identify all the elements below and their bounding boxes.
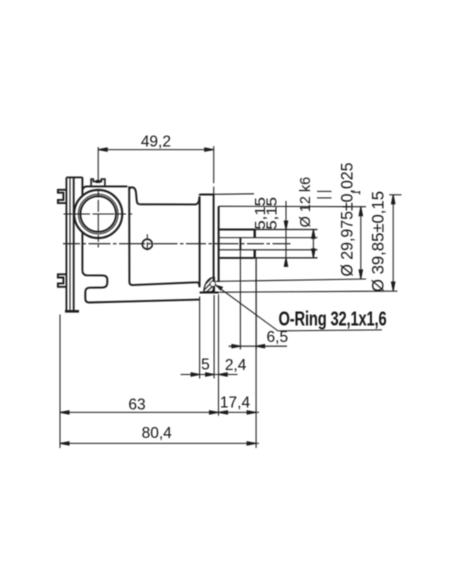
left mounting plate (outer): [65, 177, 82, 311]
hole vertical centerline: [146, 234, 148, 254]
port bore ring circle: [78, 194, 118, 234]
svg-text:17,4: 17,4: [220, 395, 251, 412]
o-ring pocket hatch: [190, 272, 225, 301]
svg-text:2,4: 2,4: [225, 357, 247, 374]
svg-text:80,4: 80,4: [142, 425, 173, 442]
hub top extension line: [219, 205, 366, 207]
svg-text:49,2: 49,2: [141, 133, 171, 150]
groove left wall: [239, 238, 241, 250]
dimension 5 and 2.4: [181, 295, 238, 416]
shaft surfaces and seal groove: [219, 230, 255, 258]
rear flange: [200, 195, 219, 293]
dimension 49.2: [96, 146, 214, 194]
groove root top line: [220, 237, 318, 239]
dimension 80.4: [60, 442, 259, 445]
svg-text:6,5: 6,5: [267, 329, 289, 346]
top tab on body: [91, 179, 105, 186]
port bore inner circle: [80, 196, 116, 232]
svg-text:Ø 29,975±0,025: Ø 29,975±0,025: [339, 163, 357, 277]
port circle centerlines: [64, 190, 133, 247]
rounded hump on barrel top: [129, 187, 140, 204]
body top edge: [86, 185, 127, 187]
shaft bottom extension to dia12: [255, 257, 318, 259]
hub bottom extension line: [215, 279, 366, 281]
port boss outer circle: [74, 190, 122, 238]
body top-left corner: [82, 187, 86, 192]
dimension dia 39.85: [392, 195, 395, 291]
body front face: [81, 177, 83, 195]
shaft top surface: [219, 229, 255, 231]
lower slot tab on plate: [58, 274, 67, 287]
barrel top edge: [140, 196, 200, 204]
shaft top extension to dia12: [255, 229, 318, 231]
plate top cap: [66, 176, 82, 178]
dimension 6.5: [229, 251, 288, 350]
svg-text:Ø 12 k6: Ø 12 k6: [297, 177, 314, 228]
pump body front block outline: [82, 177, 199, 302]
body rear face: [129, 186, 199, 287]
bearing cap face: [218, 206, 220, 282]
dimension 5.15 pair chain line: [284, 201, 287, 267]
mid-body threaded hole: [142, 239, 152, 249]
svg-text:5: 5: [201, 356, 210, 373]
foot and slot outline: [82, 271, 199, 303]
svg-text:Ø 39,85±0,15: Ø 39,85±0,15: [370, 191, 388, 292]
dimension dia 12 k6: [312, 230, 315, 258]
main shaft centerline: [63, 243, 291, 245]
plate bottom cap: [65, 310, 79, 313]
flange OD extension segments (dia 39.85): [214, 191, 402, 292]
svg-text:63: 63: [128, 397, 145, 414]
svg-text:O-Ring 32,1x1,6: O-Ring 32,1x1,6: [279, 309, 387, 331]
dimension dia 29.975: [359, 207, 362, 279]
groove root bottom line: [220, 249, 318, 251]
o-ring section circle: [210, 281, 215, 286]
o-ring leader line: [216, 285, 382, 331]
shaft end face / groove right wall: [253, 230, 255, 238]
shaft bottom surface: [219, 257, 255, 259]
upper slot tab on plate: [58, 190, 67, 203]
svg-text:5,15: 5,15: [263, 197, 280, 230]
dimensions 63 and 17.4: [60, 259, 259, 449]
